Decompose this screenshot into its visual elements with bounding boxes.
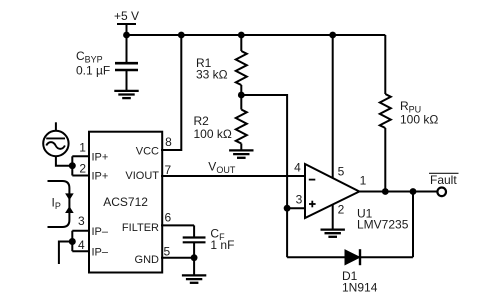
wire CF ground lead: [193, 258, 195, 275]
op-amp U1: [305, 164, 359, 218]
node R1-R2 junction: [238, 92, 245, 99]
wire divider junction to + input: [241, 95, 287, 257]
svg-text:33 kΩ: 33 kΩ: [196, 68, 228, 82]
svg-text:GND: GND: [135, 254, 160, 266]
svg-text:100 kΩ: 100 kΩ: [400, 113, 438, 127]
pin 1 stub: [72, 155, 90, 157]
svg-text:8: 8: [165, 135, 172, 149]
svg-text:IP–: IP–: [92, 226, 109, 238]
resistor R2: [236, 95, 247, 150]
svg-text:3: 3: [78, 214, 85, 228]
node VCC riser: [178, 32, 185, 39]
svg-text:100 kΩ: 100 kΩ: [194, 127, 232, 141]
svg-text:+5 V: +5 V: [114, 9, 139, 23]
minus symbol: [309, 179, 316, 181]
wire + input: [287, 207, 305, 209]
wire output: [359, 191, 437, 193]
wire IP+ tie: [71, 156, 73, 175]
svg-text:2: 2: [79, 162, 86, 176]
ground R2: [229, 150, 253, 157]
plus symbol: [309, 201, 316, 208]
wire IP- return stub: [59, 242, 72, 265]
svg-text:IP+: IP+: [92, 171, 109, 183]
pin 5 stub: [161, 257, 194, 259]
ground CBYP: [114, 91, 138, 98]
svg-text:LMV7235: LMV7235: [357, 218, 409, 232]
svg-text:6: 6: [164, 211, 171, 225]
ground op-amp: [321, 230, 345, 237]
pin 3 stub: [72, 230, 90, 232]
wire comparator V- (pin 2) to ground: [332, 205, 334, 229]
svg-text:1: 1: [79, 140, 86, 154]
source AC: [43, 122, 72, 165]
svg-text:5: 5: [163, 245, 170, 259]
resistor RPU: [380, 35, 391, 192]
node comparator supply: [329, 32, 336, 39]
svg-text:R2: R2: [194, 114, 210, 128]
wire VOUT (pin 7 to inverting input): [161, 175, 305, 177]
svg-text:FILTER: FILTER: [122, 222, 159, 234]
svg-text:Fault: Fault: [430, 173, 457, 187]
pin 2 stub: [72, 175, 90, 177]
+5V supply: [117, 24, 136, 35]
svg-text:VIOUT: VIOUT: [125, 170, 159, 182]
svg-text:1N914: 1N914: [342, 281, 378, 295]
IC ACS712: [89, 132, 162, 273]
wire VCC riser (pin 8 to rail): [161, 35, 181, 150]
svg-text:2: 2: [338, 203, 345, 217]
capacitor CBYP: [115, 35, 138, 90]
node CF / GND pin: [191, 254, 198, 261]
IP arrow down: [65, 193, 74, 200]
Fault terminal: [437, 188, 446, 197]
svg-text:7: 7: [164, 163, 171, 177]
node CBYP top: [123, 32, 130, 39]
svg-text:5: 5: [338, 165, 345, 179]
svg-text:IP–: IP–: [92, 246, 109, 258]
svg-text:1: 1: [360, 174, 367, 188]
wire comparator V+ (pin 5) riser: [332, 35, 334, 178]
svg-text:4: 4: [294, 161, 301, 175]
node noninverting input: [284, 205, 291, 212]
pin 6 stub: [161, 224, 194, 226]
IP arrow up: [65, 206, 74, 213]
svg-text:ACS712: ACS712: [103, 195, 148, 209]
node IP- tie: [69, 238, 76, 245]
svg-text:1 nF: 1 nF: [210, 238, 234, 252]
node RPU bottom: [382, 188, 389, 195]
svg-text:IP+: IP+: [92, 151, 109, 163]
wire top rail: [127, 34, 386, 36]
node diode feedback: [410, 188, 417, 195]
resistor R1: [236, 35, 247, 95]
svg-text:4: 4: [78, 238, 85, 252]
svg-text:0.1 µF: 0.1 µF: [76, 63, 110, 77]
svg-text:VCC: VCC: [136, 146, 159, 158]
diode D1: [287, 192, 413, 258]
node IP+ tie: [69, 162, 76, 169]
ground CF: [182, 275, 206, 282]
capacitor CF: [183, 225, 206, 257]
node R1 top: [238, 32, 245, 39]
svg-text:3: 3: [296, 192, 303, 206]
pin 4 stub: [72, 250, 90, 252]
wire IP- tie: [71, 231, 73, 252]
IP current loop: [48, 181, 70, 227]
